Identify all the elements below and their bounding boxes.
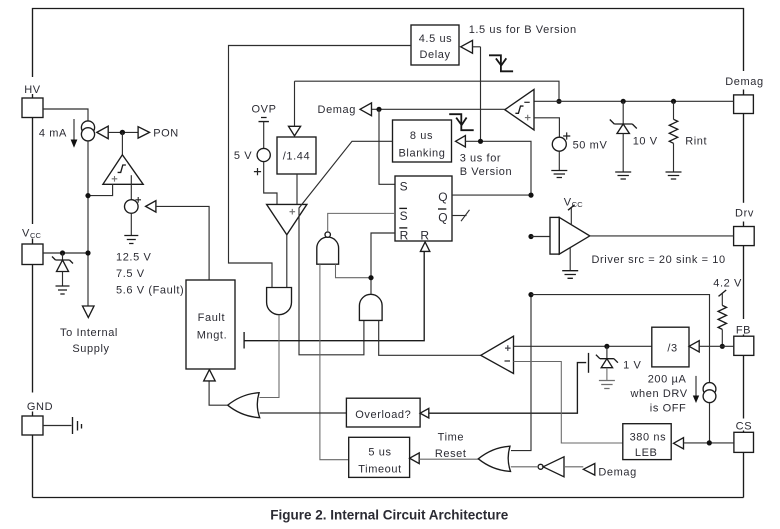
- svg-text:Drv: Drv: [735, 208, 754, 220]
- svg-text:380 ns: 380 ns: [630, 432, 667, 444]
- svg-text:PON: PON: [153, 128, 179, 140]
- svg-text:S: S: [400, 209, 408, 223]
- svg-text:1 V: 1 V: [623, 359, 641, 371]
- svg-text:1.5 us for B Version: 1.5 us for B Version: [469, 24, 577, 36]
- svg-text:/3: /3: [667, 343, 677, 355]
- svg-text:/1.44: /1.44: [283, 151, 310, 163]
- svg-text:Overload?: Overload?: [355, 409, 411, 421]
- svg-text:Supply: Supply: [72, 343, 109, 355]
- svg-text:Time: Time: [438, 432, 464, 444]
- svg-text:8 us: 8 us: [410, 130, 433, 142]
- svg-text:Demag: Demag: [725, 76, 763, 88]
- svg-text:Blanking: Blanking: [399, 148, 446, 160]
- svg-text:4.2 V: 4.2 V: [713, 278, 742, 290]
- svg-text:5 V: 5 V: [234, 150, 252, 162]
- svg-text:R: R: [400, 229, 409, 243]
- svg-text:4 mA: 4 mA: [39, 128, 67, 140]
- svg-text:5.6 V (Fault): 5.6 V (Fault): [116, 285, 184, 297]
- svg-text:Driver src = 20 sink = 10: Driver src = 20 sink = 10: [592, 254, 726, 266]
- svg-text:Q: Q: [438, 210, 447, 224]
- svg-text:Fault: Fault: [198, 312, 225, 324]
- svg-text:S: S: [400, 180, 408, 194]
- svg-text:LEB: LEB: [635, 447, 658, 459]
- svg-text:CS: CS: [736, 421, 752, 433]
- svg-text:7.5 V: 7.5 V: [116, 268, 145, 280]
- svg-text:GND: GND: [27, 401, 53, 413]
- svg-text:FB: FB: [736, 325, 751, 337]
- svg-text:5 us: 5 us: [368, 447, 391, 459]
- svg-text:when DRV: when DRV: [630, 388, 688, 400]
- svg-text:Demag: Demag: [318, 104, 356, 116]
- svg-text:50 mV: 50 mV: [573, 140, 608, 152]
- svg-text:200 µA: 200 µA: [648, 374, 687, 386]
- svg-text:Figure 2. Internal Circuit Arc: Figure 2. Internal Circuit Architecture: [270, 508, 509, 523]
- svg-text:3 us for: 3 us for: [460, 153, 502, 165]
- svg-text:Rint: Rint: [685, 136, 707, 148]
- svg-text:B Version: B Version: [460, 166, 512, 178]
- svg-text:Reset: Reset: [435, 448, 467, 460]
- svg-text:4.5 us: 4.5 us: [419, 33, 453, 45]
- svg-text:HV: HV: [24, 84, 41, 96]
- svg-text:R: R: [420, 229, 429, 243]
- svg-text:Q: Q: [438, 190, 447, 204]
- svg-text:OVP: OVP: [251, 104, 276, 116]
- svg-text:12.5 V: 12.5 V: [116, 252, 151, 264]
- svg-text:10 V: 10 V: [633, 136, 658, 148]
- svg-text:Timeout: Timeout: [358, 464, 402, 476]
- svg-text:Mngt.: Mngt.: [197, 329, 228, 341]
- svg-text:Delay: Delay: [419, 49, 450, 61]
- svg-text:is OFF: is OFF: [650, 403, 687, 415]
- svg-text:Demag: Demag: [598, 466, 636, 478]
- svg-text:To Internal: To Internal: [60, 327, 118, 339]
